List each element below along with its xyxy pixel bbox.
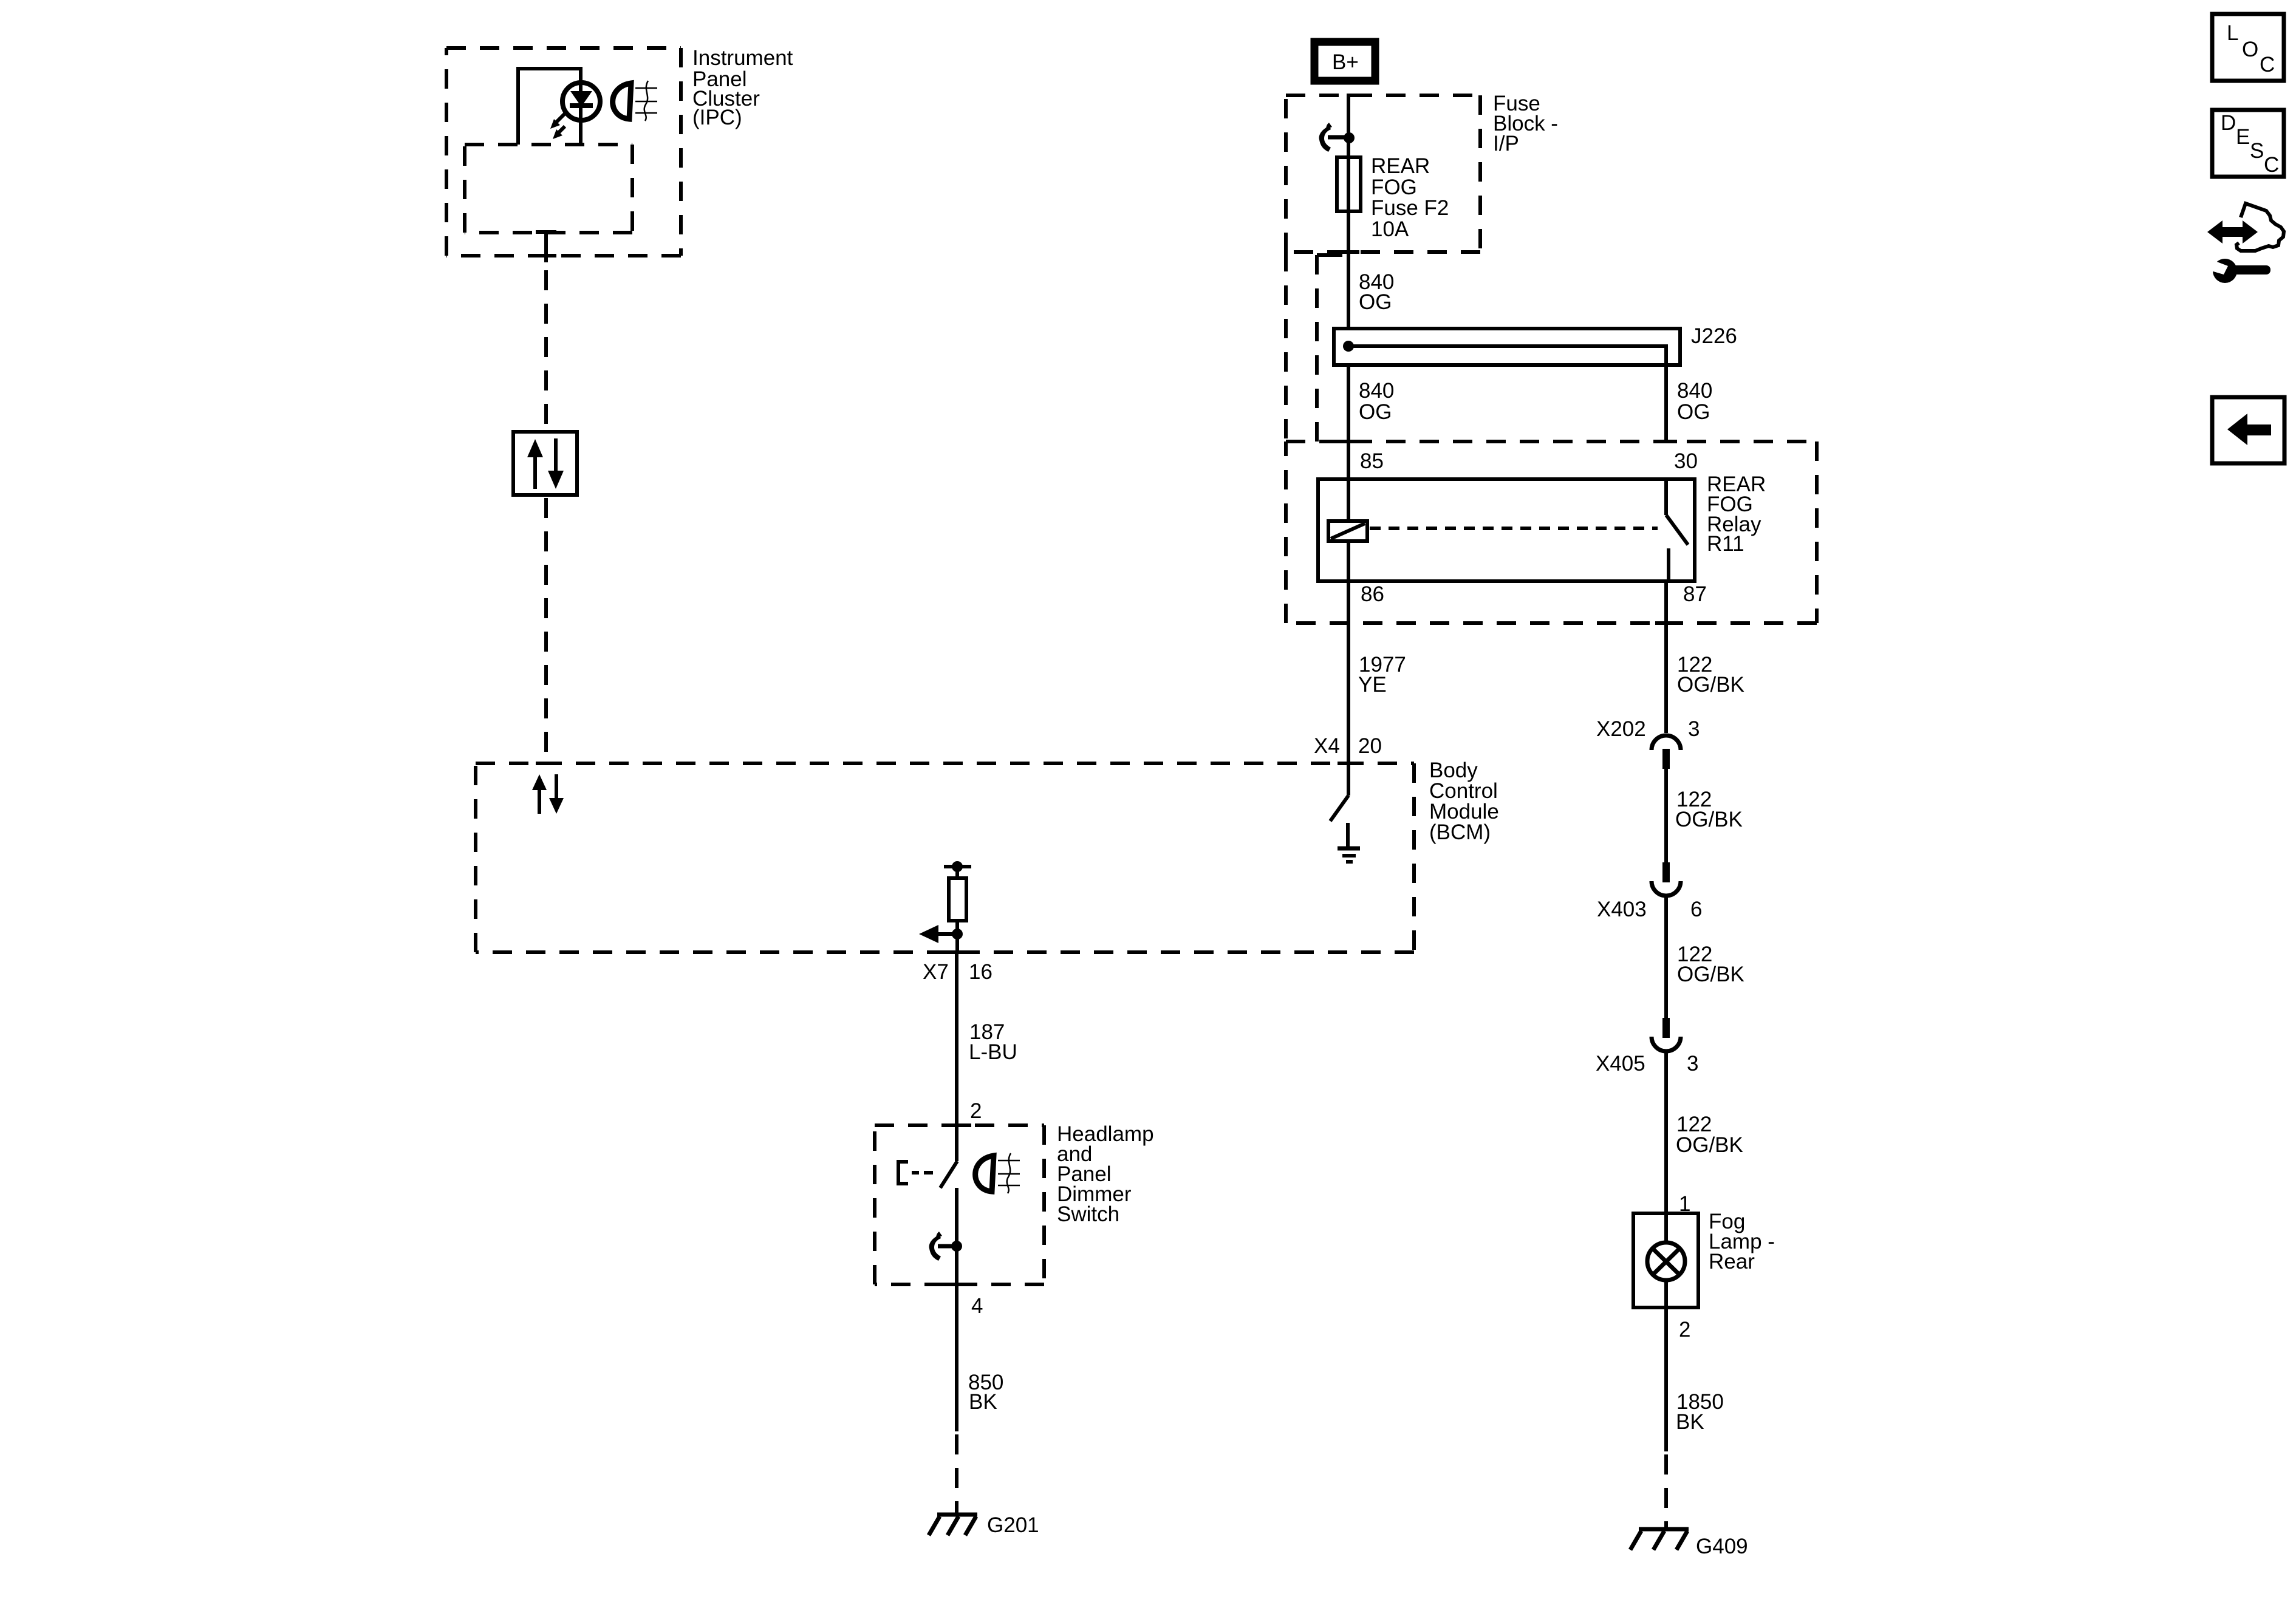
- label REAR FOG Fuse F2 10A: [1371, 154, 1449, 241]
- svg-text:J226: J226: [1691, 324, 1737, 348]
- svg-text:YE: YE: [1358, 673, 1387, 697]
- svg-text:(IPC): (IPC): [692, 106, 742, 129]
- BCM internal ground: [1338, 823, 1360, 862]
- svg-text:BK: BK: [1676, 1410, 1704, 1434]
- relay R11 dashed box: [1286, 442, 1817, 623]
- clamp hook symbol in headlamp switch: [929, 1232, 954, 1261]
- resistor in BCM: [949, 878, 966, 921]
- junction dot headlamp switch: [951, 1241, 962, 1252]
- headlamp and panel dimmer switch dashed box: [875, 1125, 1044, 1284]
- wire X202 to X403: [1664, 769, 1668, 862]
- svg-text:Switch: Switch: [1057, 1202, 1119, 1226]
- svg-text:OG: OG: [1677, 400, 1710, 424]
- fog lamp bulb symbol: [1647, 1213, 1685, 1307]
- svg-text:840: 840: [1677, 379, 1712, 403]
- BCM serial data arrows: [532, 774, 564, 814]
- svg-text:S: S: [2250, 139, 2264, 163]
- dashed wire to G201: [955, 1434, 958, 1513]
- svg-text:86: 86: [1361, 582, 1384, 606]
- IPC inner dashed box (serial data section): [465, 145, 632, 233]
- outer dashed left edge continuation: [1284, 252, 1288, 442]
- wire label 840 OG above J226: [1359, 270, 1394, 314]
- junction dot in fuse block: [1344, 132, 1355, 143]
- svg-text:X202: X202: [1596, 717, 1646, 741]
- wire label 840 OG below J226 left: [1359, 379, 1394, 424]
- wire X405 to fog lamp: [1664, 1052, 1668, 1213]
- icon back arrow box: [2212, 397, 2284, 463]
- tick at BCM bottom X7 crossing: [943, 950, 972, 954]
- in-line connector X202: [1652, 735, 1681, 769]
- fog lamp rear box: [1633, 1213, 1698, 1307]
- svg-text:OG/BK: OG/BK: [1677, 673, 1744, 697]
- junction dot with left arrow in BCM: [919, 925, 963, 943]
- svg-text:OG/BK: OG/BK: [1677, 963, 1744, 986]
- wire label 840 OG below J226 right: [1677, 379, 1712, 424]
- svg-text:OG/BK: OG/BK: [1675, 808, 1743, 831]
- svg-text:6: 6: [1690, 898, 1702, 921]
- svg-text:10A: 10A: [1371, 217, 1409, 241]
- tick at fuse block bottom wire crossing: [1338, 250, 1359, 254]
- relay switch contact 30-87: [1666, 479, 1688, 581]
- LED cathode bar: [570, 103, 593, 108]
- wire label 850 BK: [968, 1371, 1003, 1414]
- IPC telltale rays: [635, 81, 657, 121]
- svg-text:16: 16: [969, 960, 993, 984]
- connector label X405 pin 3: [1596, 1052, 1698, 1076]
- wire label 187 L-BU: [969, 1020, 1017, 1064]
- fuse F2 rectangle: [1337, 157, 1361, 211]
- icon wrench: [2205, 258, 2270, 283]
- Fuse Block I/P dashed box: [1286, 95, 1480, 252]
- svg-text:30: 30: [1674, 449, 1698, 473]
- wire resistor to BCM exit: [955, 921, 959, 952]
- tick at switch box bottom crossing: [942, 1283, 971, 1286]
- label Headlamp and Panel Dimmer Switch: [1057, 1122, 1154, 1226]
- splice pack J226 bar: [1334, 329, 1680, 365]
- svg-text:20: 20: [1358, 734, 1382, 758]
- svg-text:G409: G409: [1696, 1535, 1748, 1558]
- LED diode triangle: [572, 92, 591, 106]
- svg-text:2: 2: [970, 1099, 982, 1123]
- label Body Control Module (BCM): [1429, 759, 1499, 844]
- battery feed terminal B+: [1314, 42, 1375, 81]
- relay coil: [1328, 479, 1367, 581]
- wire label 122 OG/BK second: [1675, 788, 1743, 831]
- svg-text:X405: X405: [1596, 1052, 1645, 1076]
- wire stub IPC exit: [544, 232, 548, 262]
- J226 inner dashed box left edge: [1315, 255, 1319, 442]
- dashed wire serial data box to BCM: [544, 498, 548, 762]
- svg-text:87: 87: [1683, 582, 1707, 606]
- dashed wire to G409: [1664, 1454, 1668, 1527]
- svg-text:OG/BK: OG/BK: [1676, 1133, 1743, 1157]
- svg-text:R11: R11: [1707, 532, 1744, 556]
- wire 87 relay to X202: [1664, 581, 1668, 733]
- wire fog lamp to ground: [1664, 1307, 1668, 1451]
- BCM dashed box (Body Control Module): [476, 763, 1414, 952]
- svg-text:OG: OG: [1359, 400, 1392, 424]
- label Fog Lamp - Rear: [1709, 1210, 1775, 1273]
- tick at IPC inner box bottom crossing: [536, 230, 556, 234]
- wire label 122 OG/BK third: [1677, 943, 1744, 986]
- clamp hook symbol in fuse block: [1319, 123, 1345, 152]
- svg-text:Fuse F2: Fuse F2: [1371, 196, 1449, 220]
- wire J226 to relay coil pin 85: [1347, 365, 1350, 479]
- relay actuation dashed link: [1370, 527, 1658, 530]
- connector label X202 pin 3: [1596, 717, 1700, 741]
- svg-text:X403: X403: [1597, 898, 1647, 921]
- svg-text:4: 4: [971, 1294, 983, 1318]
- tick at BCM top serial data wire crossing: [536, 762, 556, 765]
- headlamp switch telltale rays: [998, 1153, 1020, 1193]
- svg-text:3: 3: [1688, 717, 1700, 741]
- dashed wire IPC to serial data box: [544, 270, 548, 432]
- svg-text:Rear: Rear: [1709, 1250, 1755, 1273]
- IPC telltale lamp half-moon symbol: [613, 83, 631, 119]
- J226 inner dashed box corner tick: [1317, 253, 1342, 257]
- J226 internal bus wire: [1343, 341, 1666, 442]
- BCM internal rail with junction dot: [944, 861, 971, 878]
- wire label 1850 BK: [1676, 1390, 1724, 1434]
- svg-text:L-BU: L-BU: [969, 1040, 1017, 1064]
- svg-text:L: L: [2227, 21, 2238, 45]
- IPC outer dashed box (Instrument Panel Cluster): [446, 48, 681, 256]
- switch actuator bracket: [898, 1162, 933, 1184]
- icon DESC box: [2212, 110, 2284, 177]
- wire X403 to X405: [1664, 897, 1668, 1018]
- connector label X4 pin 20: [1314, 734, 1382, 758]
- LED light ray arrow 2: [553, 126, 565, 139]
- LED light ray arrow 1: [550, 113, 565, 129]
- tick at fuse block top B+ wire entry: [1347, 94, 1366, 97]
- connector label X7 pin 16: [923, 960, 993, 984]
- svg-text:E: E: [2236, 125, 2250, 149]
- wire B+ feed down to fuse: [1347, 95, 1350, 329]
- label 1977 YE: [1358, 653, 1406, 697]
- connector label X403 pin 6: [1597, 898, 1702, 921]
- svg-text:C: C: [2260, 53, 2275, 77]
- wire label 122 OG/BK fourth: [1676, 1113, 1743, 1157]
- label Instrument Panel Cluster (IPC): [692, 46, 793, 129]
- svg-text:REAR: REAR: [1371, 154, 1430, 178]
- wire BCM X7-16 to headlamp switch: [955, 952, 958, 1161]
- svg-text:C: C: [2264, 153, 2279, 177]
- svg-text:B+: B+: [1332, 50, 1359, 74]
- tick at IPC outer box bottom crossing: [536, 254, 556, 257]
- svg-text:OG: OG: [1359, 290, 1392, 314]
- label REAR FOG Relay R11: [1707, 472, 1766, 556]
- in-line connector X405: [1652, 1018, 1681, 1051]
- label Fuse Block - I/P: [1493, 92, 1558, 155]
- icon LOC box: [2212, 14, 2284, 81]
- serial data box with arrows: [513, 432, 577, 495]
- LED indicator lamp circle: [562, 83, 600, 120]
- tick at relay box bottom pin87 crossing: [1655, 621, 1677, 625]
- tick at switch box top crossing: [942, 1123, 971, 1127]
- svg-text:BK: BK: [969, 1390, 997, 1414]
- wire IPC internal top loop: [518, 69, 581, 145]
- svg-text:D: D: [2221, 111, 2236, 135]
- ground G409: [1630, 1529, 1689, 1550]
- switch blade in BCM: [1330, 796, 1348, 821]
- svg-text:840: 840: [1359, 379, 1394, 403]
- svg-text:Instrument: Instrument: [692, 46, 793, 70]
- svg-text:85: 85: [1360, 449, 1384, 473]
- wire blade to lower contact: [955, 1188, 958, 1431]
- switch blade headlamp switch: [940, 1161, 957, 1188]
- icon double arrow with connector outline: [2207, 203, 2284, 251]
- in-line connector X403: [1652, 862, 1681, 896]
- svg-text:G201: G201: [987, 1513, 1039, 1537]
- svg-text:X4: X4: [1314, 734, 1340, 758]
- svg-text:I/P: I/P: [1493, 132, 1519, 155]
- svg-text:3: 3: [1687, 1052, 1698, 1076]
- svg-text:O: O: [2242, 38, 2258, 61]
- relay R11 body rectangle: [1318, 479, 1695, 581]
- wire label 122 OG/BK first: [1677, 653, 1744, 697]
- tick at relay box top pin85 crossing: [1338, 440, 1359, 443]
- tick at relay box top pin30 crossing: [1655, 440, 1677, 443]
- headlamp switch telltale half-moon symbol: [975, 1156, 994, 1192]
- wire 86 relay to BCM X4-20: [1347, 581, 1350, 796]
- svg-text:X7: X7: [923, 960, 949, 984]
- svg-text:2: 2: [1679, 1318, 1690, 1342]
- ground G201: [929, 1515, 977, 1535]
- tick at BCM top X4 crossing: [1338, 762, 1359, 765]
- svg-text:(BCM): (BCM): [1429, 820, 1491, 844]
